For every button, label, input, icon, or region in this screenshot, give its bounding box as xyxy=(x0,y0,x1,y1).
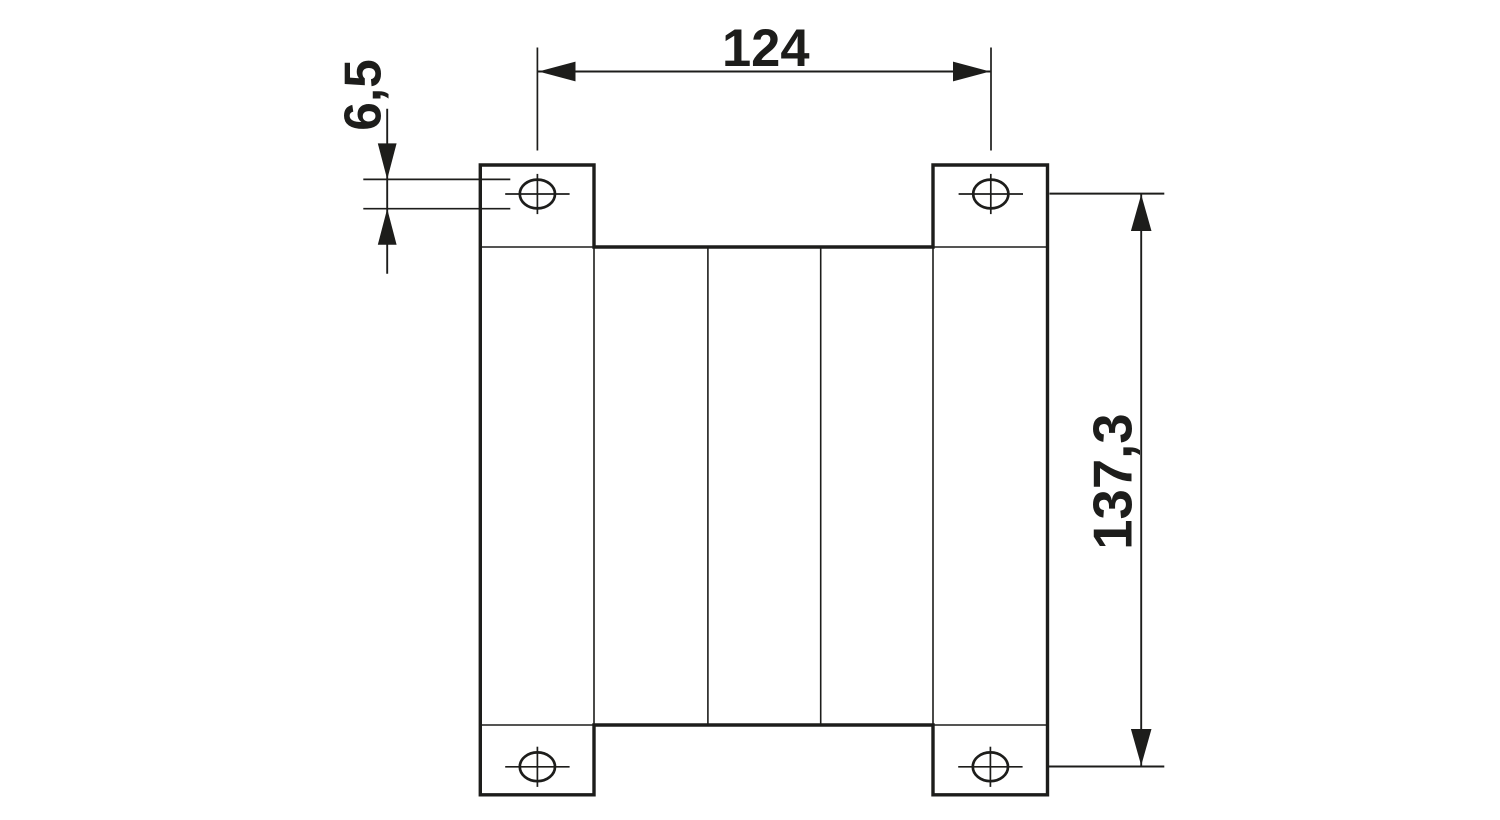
flange separation line bottom-left xyxy=(480,724,594,726)
dimension 124: extension line right xyxy=(990,48,992,151)
part outline (thick perimeter of terminal block body with four mounting flanges) xyxy=(480,165,1047,795)
flange separation line bottom-right xyxy=(933,724,1048,726)
mounting hole bottom-right xyxy=(958,747,1022,787)
dimension 124: right arrowhead xyxy=(953,62,990,82)
dimension 124: extension line left xyxy=(536,48,538,151)
dimension 124: left arrowhead xyxy=(539,62,576,82)
svg-text:137,3: 137,3 xyxy=(1083,413,1144,549)
internal vertical line right column xyxy=(932,247,934,725)
dimension 6,5: dimension line xyxy=(386,109,388,274)
svg-text:6,5: 6,5 xyxy=(334,59,392,131)
flange separation line top-left xyxy=(480,246,594,248)
dimension 137,3: extension line top xyxy=(1050,193,1165,195)
dimension 137,3: extension line bottom xyxy=(1049,766,1165,768)
mounting hole top-right xyxy=(959,174,1023,214)
internal vertical line mid-left xyxy=(707,247,709,725)
mounting hole top-left xyxy=(505,174,569,214)
internal vertical line left column xyxy=(593,247,595,725)
internal vertical line mid-right xyxy=(820,247,822,725)
svg-text:124: 124 xyxy=(722,19,810,78)
dimension 137,3: dimension line xyxy=(1140,195,1142,766)
dimension 124: dimension line xyxy=(538,71,991,73)
dimension 137,3: top arrowhead (points up) xyxy=(1131,195,1152,232)
dimension 6,5: upper arrowhead (points down) xyxy=(378,143,397,179)
dimension 137,3: bottom arrowhead (points down) xyxy=(1131,729,1152,766)
dimension 6,5: extension line upper xyxy=(363,178,510,180)
flange separation line top-right xyxy=(933,246,1048,248)
dimension 6,5: lower arrowhead (points up) xyxy=(378,209,397,245)
mounting hole bottom-left xyxy=(505,747,569,787)
dimension 6,5: extension line lower xyxy=(363,208,510,210)
